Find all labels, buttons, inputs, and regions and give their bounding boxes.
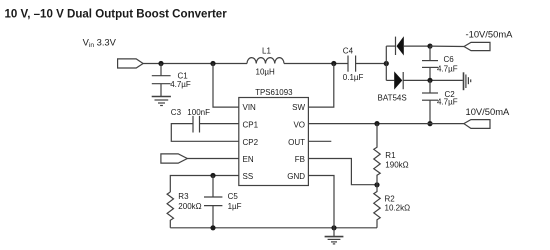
output connector -10V: [464, 42, 490, 50]
svg-text:C3: C3: [171, 108, 182, 117]
svg-text:SW: SW: [292, 103, 305, 112]
svg-text:4.7µF: 4.7µF: [437, 98, 458, 107]
svg-text:R1: R1: [385, 151, 396, 160]
node VIN tap: [210, 61, 215, 66]
svg-text:-10V/50mA: -10V/50mA: [466, 28, 514, 39]
wire -10V rail: [430, 45, 464, 47]
wire VIN drop: [213, 64, 239, 108]
svg-text:1µF: 1µF: [228, 202, 242, 211]
wire EN: [187, 158, 239, 160]
node FB divider: [374, 182, 379, 187]
wire FB routing: [308, 159, 377, 185]
ground (bottom): [333, 228, 335, 237]
wire top rail: [143, 63, 247, 65]
resistor R2: [374, 185, 380, 228]
svg-text:Vin 3.3V: Vin 3.3V: [83, 37, 117, 50]
svg-text:100nF: 100nF: [187, 108, 210, 117]
wire node A vertical: [385, 46, 387, 80]
svg-text:FB: FB: [295, 155, 305, 164]
svg-text:OUT: OUT: [288, 138, 305, 147]
svg-text:VIN: VIN: [243, 103, 257, 112]
svg-text:C6: C6: [444, 55, 455, 64]
node VO/R1: [374, 121, 379, 126]
capacitor C2: [429, 80, 431, 93]
inductor L1: [247, 58, 284, 64]
node SW tap: [331, 61, 336, 66]
svg-text:CP2: CP2: [243, 138, 259, 147]
input connector Vin: [118, 59, 144, 68]
svg-text:TPS61093: TPS61093: [255, 88, 293, 97]
input connector EN: [161, 154, 187, 163]
svg-text:10 V, –10 V Dual Output Boost: 10 V, –10 V Dual Output Boost Converter: [5, 8, 228, 20]
wire SS: [170, 176, 239, 193]
svg-text:R2: R2: [385, 194, 396, 203]
BAT54S label: [378, 93, 407, 102]
wire L1 to C4: [284, 63, 348, 65]
resistor R3: [167, 192, 173, 228]
node mid GND: [427, 78, 432, 83]
svg-text:190kΩ: 190kΩ: [385, 161, 408, 170]
svg-text:EN: EN: [243, 155, 254, 164]
node C1 tap: [158, 61, 163, 66]
wire OUT stub: [308, 140, 331, 142]
capacitor C1: [160, 64, 162, 76]
svg-text:10V/50mA: 10V/50mA: [466, 106, 511, 117]
node -10V rail: [427, 44, 432, 49]
svg-text:L1: L1: [262, 47, 271, 56]
svg-text:200kΩ: 200kΩ: [178, 202, 201, 211]
svg-text:R3: R3: [178, 192, 189, 201]
node 10V rail C2: [427, 121, 432, 126]
capacitor C3 + CP loop: [200, 123, 239, 125]
node ground junction: [331, 225, 336, 230]
svg-text:CP1: CP1: [243, 120, 259, 129]
resistor R1: [374, 124, 380, 185]
node SS/C5: [210, 173, 215, 178]
capacitor C4: [347, 56, 349, 72]
svg-text:GND: GND: [287, 172, 305, 181]
wire GND routing: [308, 176, 334, 228]
capacitor C6: [429, 46, 431, 61]
wire VO 10V rail: [308, 123, 463, 125]
diode D1 (top, BAT54S): [386, 45, 395, 47]
svg-text:0.1µF: 0.1µF: [343, 73, 364, 82]
svg-text:4.7µF: 4.7µF: [170, 80, 191, 89]
Vin 3.3V label: [83, 37, 117, 50]
svg-text:10.2kΩ: 10.2kΩ: [385, 203, 411, 212]
svg-text:BAT54S: BAT54S: [378, 93, 407, 102]
svg-text:10µH: 10µH: [256, 68, 276, 77]
node C5 bottom: [210, 225, 215, 230]
svg-text:C4: C4: [343, 46, 354, 55]
title: [5, 8, 228, 20]
output connector 10V: [464, 120, 490, 129]
ground (sideways): [463, 72, 465, 90]
diode D2 (bottom, BAT54S): [386, 79, 394, 81]
ground (C1): [152, 96, 171, 98]
svg-text:SS: SS: [243, 172, 254, 181]
svg-text:4.7µF: 4.7µF: [437, 64, 458, 73]
IC U1 TPS61093 box: [239, 98, 309, 186]
capacitor C5: [212, 176, 214, 198]
svg-text:C5: C5: [228, 192, 239, 201]
wire SW riser: [308, 64, 333, 108]
svg-text:VO: VO: [293, 120, 305, 129]
node A: [384, 61, 389, 66]
wire bottom rail: [170, 227, 377, 229]
